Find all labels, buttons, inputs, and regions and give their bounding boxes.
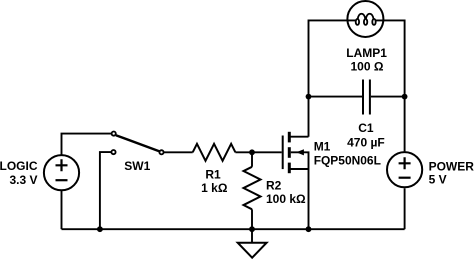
- svg-text:5 V: 5 V: [429, 173, 447, 187]
- voltage source POWER (5 V): [387, 152, 422, 187]
- svg-text:470 µF: 470 µF: [347, 136, 385, 150]
- svg-text:LAMP1: LAMP1: [346, 46, 387, 60]
- wire gate lead: [252, 151, 282, 153]
- svg-text:3.3 V: 3.3 V: [9, 173, 37, 187]
- wire R1 to gate node: [235, 151, 252, 153]
- ground: [238, 229, 267, 258]
- svg-text:R2: R2: [266, 179, 282, 193]
- svg-text:SW1: SW1: [124, 159, 150, 173]
- capacitor C1: [363, 80, 370, 115]
- svg-text:LOGIC: LOGIC: [0, 159, 38, 173]
- svg-text:M1: M1: [314, 140, 331, 154]
- wire C1 right branch: [371, 96, 405, 98]
- wire C1 left branch: [309, 96, 363, 98]
- wire SW1 lower terminal to bottom rail: [100, 152, 111, 229]
- junction dot at bottom rail x=99.9: [97, 226, 103, 232]
- wire POWER bottom to rail: [404, 188, 406, 229]
- wire lamp right to top-right corner: [376, 20, 405, 151]
- svg-text:R1: R1: [205, 168, 221, 182]
- svg-text:FQP50N06L: FQP50N06L: [314, 153, 381, 167]
- wire drain up to lamp rail: [309, 20, 356, 136]
- svg-text:100 kΩ: 100 kΩ: [266, 192, 306, 206]
- junction dot R2 bottom rail: [249, 226, 255, 232]
- switch SW1: [111, 132, 163, 155]
- transistor M1 (N-MOSFET): [283, 132, 309, 173]
- svg-text:C1: C1: [358, 121, 374, 135]
- junction dot C1 right: [402, 94, 408, 100]
- wire bottom ground rail: [62, 228, 405, 230]
- wire top-left rail from LOGIC to SW1 upper terminal: [62, 134, 112, 156]
- svg-text:1 kΩ: 1 kΩ: [201, 181, 228, 195]
- junction dot source at bottom rail: [306, 226, 312, 232]
- resistor R1: [193, 144, 236, 161]
- resistor R2: [244, 152, 261, 229]
- svg-text:POWER: POWER: [429, 160, 474, 174]
- node R1/R2/gate junction dot: [249, 149, 255, 155]
- svg-text:100 Ω: 100 Ω: [351, 60, 384, 74]
- junction dot C1 left: [306, 94, 312, 100]
- lamp LAMP1: [347, 1, 383, 37]
- wire LOGIC bottom to ground rail: [61, 191, 63, 230]
- wire SW1 right terminal to R1: [164, 151, 193, 153]
- voltage source LOGIC (3.3 V): [44, 155, 79, 190]
- wire source down to bottom rail: [308, 169, 310, 229]
